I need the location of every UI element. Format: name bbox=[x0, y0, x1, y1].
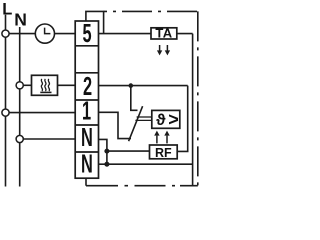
arrows below TA (down) bbox=[157, 45, 170, 55]
wire right-side N drop bbox=[192, 34, 194, 186]
wire top tab over terminal 5 bbox=[86, 11, 104, 33]
mechanical link to thermostat (double line) bbox=[135, 117, 151, 120]
node junction N bus at RF bbox=[104, 149, 109, 154]
wire N to terminal N1 y=139 bbox=[20, 138, 75, 140]
wire terminal 2 to right bbox=[99, 85, 188, 87]
svg-text:TA: TA bbox=[155, 25, 172, 40]
RF box (radio receiver) bbox=[150, 145, 178, 160]
wire clock feed y=33.6 bbox=[6, 33, 36, 35]
wire L line vertical bbox=[5, 15, 7, 187]
wire N bus to right side bbox=[107, 163, 193, 165]
svg-text:1: 1 bbox=[82, 96, 91, 126]
thermostat box U1 bbox=[152, 109, 180, 129]
wire RF left to N bus bbox=[107, 150, 150, 152]
terminal label N2 bbox=[81, 148, 93, 178]
net label N bbox=[14, 9, 27, 29]
svg-text:ϑ: ϑ bbox=[156, 112, 166, 129]
node terminal N tap for heater (open circle) bbox=[16, 82, 23, 89]
wire N line vertical bbox=[19, 27, 21, 187]
clock time-switch symbol bbox=[35, 24, 54, 43]
terminal label N1 bbox=[81, 122, 93, 152]
svg-text:N: N bbox=[81, 148, 93, 178]
wire heater feed y=85.3 bbox=[20, 84, 32, 86]
svg-text:N: N bbox=[14, 9, 27, 29]
wire bottom tab under terminal N2 bbox=[85, 178, 87, 186]
svg-text:>: > bbox=[168, 109, 179, 129]
wire switch fixed contact drop bbox=[131, 86, 138, 111]
device outline dash-dot border bottom (merges with tab wire) bbox=[86, 185, 198, 187]
wire heater to terminal 2 bbox=[58, 84, 76, 86]
wire terminal N1 stub bbox=[99, 139, 107, 164]
device outline dash-dot border right bbox=[197, 11, 199, 185]
switch blade bbox=[129, 106, 143, 141]
arrows above RF (up) bbox=[154, 131, 170, 144]
wire terminal 5 to TA bbox=[99, 33, 152, 35]
wire terminal N2 stub bbox=[99, 163, 107, 165]
terminal block column bbox=[75, 21, 98, 178]
wire clock to terminal 5 bbox=[55, 33, 76, 35]
terminal label 5 bbox=[82, 18, 91, 48]
node junction N bus lower bbox=[104, 162, 109, 167]
wire L to terminal 1 y=112.6 bbox=[6, 112, 76, 114]
device outline dash-dot border top bbox=[104, 10, 198, 12]
node terminal N tap 2 (open circle) bbox=[16, 135, 23, 142]
heater load E1 bbox=[32, 75, 58, 95]
node terminal L tap (open circle) bbox=[2, 30, 9, 37]
wire TA to right side bbox=[177, 33, 193, 35]
terminal label 2 bbox=[83, 71, 92, 101]
wire right drop to RF bbox=[177, 86, 188, 152]
wire terminal 1 to switch bbox=[99, 112, 132, 138]
node terminal L tap 2 (open circle) bbox=[2, 109, 9, 116]
terminal label 1 bbox=[82, 96, 91, 126]
svg-text:RF: RF bbox=[155, 146, 172, 160]
svg-text:5: 5 bbox=[82, 18, 91, 48]
node junction on wire 2 bbox=[129, 83, 134, 88]
svg-text:L: L bbox=[2, 0, 12, 18]
TA box (remote switch input) bbox=[151, 25, 177, 40]
net label L bbox=[2, 0, 12, 18]
